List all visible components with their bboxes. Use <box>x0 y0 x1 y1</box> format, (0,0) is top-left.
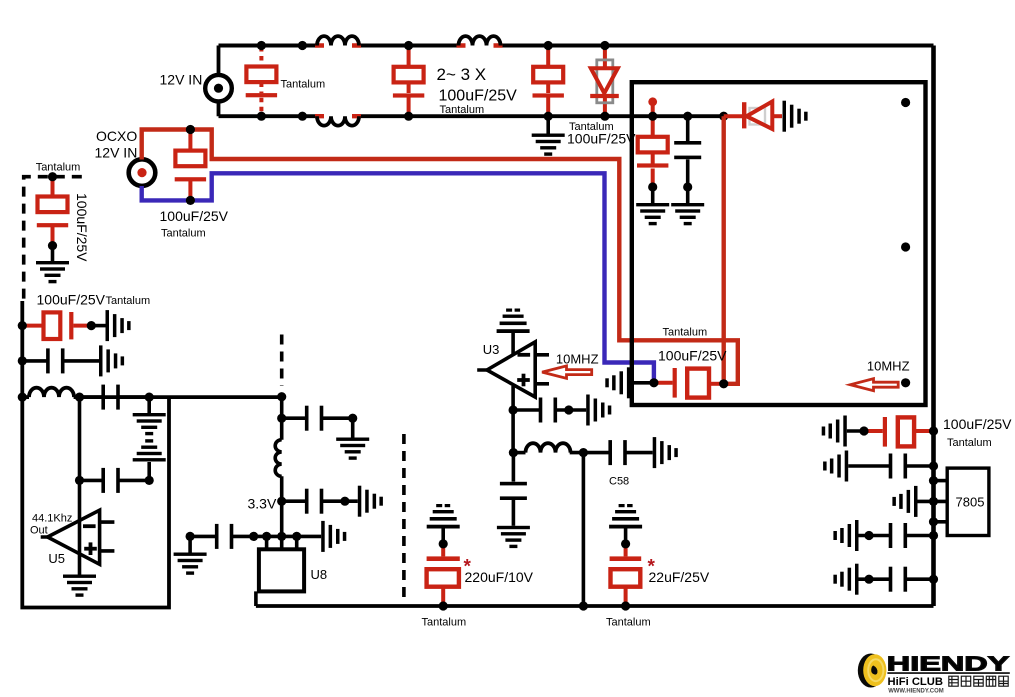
junction dots lower rail <box>257 112 610 121</box>
label 100uF/25V Tantalum C4 <box>160 208 229 240</box>
svg-text:U3: U3 <box>483 342 500 357</box>
svg-text:2~ 3 X: 2~ 3 X <box>437 65 487 84</box>
capacitor C5 tantalum <box>37 177 68 246</box>
label 100uF/25V Tantalum right <box>943 416 1012 449</box>
capacitor C23 black row with ground <box>833 564 938 595</box>
capacitor C16 22uF/25V tantalum with top ground <box>609 504 642 611</box>
box outline <box>632 82 926 405</box>
wire blue OCXO return bus <box>142 173 654 382</box>
svg-text:HIENDY: HIENDY <box>887 653 1010 676</box>
svg-text:Tantalum: Tantalum <box>422 617 467 629</box>
svg-text:12V IN: 12V IN <box>160 72 203 88</box>
junction dots in box top row <box>648 112 728 192</box>
capacitor C13 to side ground <box>513 395 611 426</box>
logo speaker ellipse <box>858 654 884 688</box>
wire top rail with right-side drop to bottom rail <box>219 46 934 607</box>
capacitor C7 black horizontal <box>22 345 124 376</box>
label Tantalum 100uF/25V near D1 <box>567 121 636 147</box>
svg-text:Tantalum: Tantalum <box>663 327 708 339</box>
pin dots right side of box <box>901 98 910 388</box>
capacitor C15 220uF/10V tantalum with top ground <box>427 504 460 611</box>
svg-text:220uF/10V: 220uF/10V <box>465 569 534 585</box>
junction dot row C7 <box>18 356 27 365</box>
svg-text:100uF/25V: 100uF/25V <box>943 416 1012 432</box>
capacitor C1 tantalum 100uF/25V dotted leads <box>246 47 277 115</box>
wire box bottom-left ground entry <box>605 367 654 398</box>
logo CJK characters <box>949 676 1008 686</box>
svg-text:Tantalum: Tantalum <box>36 162 81 174</box>
labels Tantalum 100uF/25V in box <box>658 327 727 364</box>
label Tantalum C5 <box>36 162 81 174</box>
wire left vertical rail and left box <box>22 301 281 608</box>
arrow 10MHZ in box red <box>850 379 898 391</box>
svg-text:Out: Out <box>30 525 48 537</box>
svg-text:100uF/25V: 100uF/25V <box>37 292 106 308</box>
regulator 7805 box <box>947 468 989 535</box>
inductor L1 <box>315 36 361 45</box>
inductor L3 (return rail) <box>315 116 361 125</box>
labels 44.1Khz Out U5 <box>30 513 72 567</box>
svg-text:Tantalum: Tantalum <box>161 228 206 240</box>
capacitor C20 tantalum horizontal right <box>822 416 938 447</box>
label U3 <box>483 342 500 357</box>
junction dots box bottom <box>649 378 728 388</box>
capacitor C6 tantalum horizontal <box>22 312 91 339</box>
connector J2 OCXO supply circle <box>129 159 156 186</box>
label U8 <box>311 567 328 582</box>
svg-text:Tantalum: Tantalum <box>440 104 485 116</box>
inductor L2 <box>457 36 503 45</box>
wire U3 output column <box>511 386 515 482</box>
svg-text:Tantalum: Tantalum <box>106 295 151 307</box>
dashed boundary mid-bottom <box>402 434 406 602</box>
connector J1 12V IN stubs <box>217 46 221 117</box>
capacitor C4 tantalum at OCXO input <box>175 131 206 199</box>
svg-text:WWW.HIENDY.COM: WWW.HIENDY.COM <box>888 687 944 694</box>
double ground stack node A <box>133 397 166 480</box>
op-amp U5 triangle <box>41 510 115 564</box>
svg-text:3.3V: 3.3V <box>248 496 277 512</box>
svg-text:7805: 7805 <box>956 495 985 510</box>
svg-text:U8: U8 <box>311 567 328 582</box>
capacitor C19 tantalum horizontal in box <box>654 368 724 398</box>
capacitor C14 vertical to ground <box>497 482 530 548</box>
capacitor C2 tantalum <box>393 46 424 117</box>
ground under C5 <box>36 246 69 284</box>
capacitor C22 black row with ground <box>833 520 938 551</box>
op-amp U5 ground feed line <box>63 480 96 596</box>
inductor L5 vertical <box>275 440 282 477</box>
junction dots U8 row <box>186 532 302 541</box>
svg-text:Tantalum: Tantalum <box>947 437 992 449</box>
svg-text:100uF/25V: 100uF/25V <box>658 348 727 364</box>
label 12V IN <box>160 72 203 88</box>
capacitor C10 with ground left of U8 <box>174 521 347 575</box>
capacitor C58 <box>608 437 677 468</box>
label 10MHZ in box <box>867 359 910 374</box>
label 100uF/25V vertical <box>74 193 90 262</box>
svg-text:100uF/25V: 100uF/25V <box>74 193 90 262</box>
wire and ground right of C6 <box>91 310 130 341</box>
svg-text:OCXO: OCXO <box>96 128 137 144</box>
capacitor C9 black horizontal row2 <box>80 397 150 493</box>
dashed boundary line <box>24 177 82 301</box>
junction dots 3.3V column <box>277 392 357 506</box>
inductor L6 <box>513 443 570 452</box>
junction dots C5 <box>48 172 57 250</box>
test point red dot <box>648 97 657 116</box>
junction dots OCXO <box>186 125 195 205</box>
capacitor C12 to side ground at 3.3V node <box>282 486 383 517</box>
op-amp U3 triangle <box>477 342 549 397</box>
capacitor C18 black in box <box>671 116 704 225</box>
junction dots U3 column <box>508 405 588 457</box>
svg-text:Tantalum: Tantalum <box>281 79 326 91</box>
inductor L4 <box>29 388 74 397</box>
svg-text:HiFi CLUB: HiFi CLUB <box>888 676 944 688</box>
arrow 10MHZ mid red <box>542 366 592 378</box>
dashed stub above 3.3V column <box>280 335 284 387</box>
wire stub 7805 output <box>929 517 947 526</box>
label C58 <box>609 476 629 488</box>
label * 220uF/10V Tantalum <box>422 557 534 629</box>
ground at 7805 middle pin <box>892 486 947 517</box>
ground under C3 <box>532 116 565 156</box>
svg-text:10MHZ: 10MHZ <box>556 352 599 367</box>
capacitor C8 black horizontal <box>80 385 150 410</box>
junction dots row C6 <box>18 321 96 330</box>
svg-text:22uF/25V: 22uF/25V <box>649 569 710 585</box>
label Tantalum C1 <box>281 79 326 91</box>
svg-text:100uF/25V: 100uF/25V <box>439 88 518 105</box>
wire bottom rail <box>256 604 934 608</box>
label 100uF/25V Tantalum row <box>37 292 151 308</box>
wire red feed down right side of box <box>722 116 726 384</box>
HIENDY LOGO <box>858 653 1010 695</box>
wire L6 to C58 row <box>570 453 653 606</box>
svg-text:44.1Khz: 44.1Khz <box>32 513 72 525</box>
wire red OCXO positive bus <box>142 130 738 384</box>
junction dots row L4/C8 <box>18 393 154 402</box>
capacitor C17 tantalum in box <box>636 116 669 225</box>
connector J1 12V IN barrel jack circle <box>205 75 232 102</box>
label OCXO 12V IN <box>95 128 138 161</box>
label 3.3V <box>248 496 277 512</box>
junction dots row2 <box>75 476 154 485</box>
wire 3.3V column <box>280 397 284 537</box>
svg-text:12V IN: 12V IN <box>95 145 138 161</box>
svg-text:100uF/25V: 100uF/25V <box>567 131 636 147</box>
diode D1 red with gray body <box>590 46 619 117</box>
capacitor C21 black row to rail <box>823 451 938 482</box>
label * 22uF/25V Tantalum <box>606 557 710 629</box>
svg-text:100uF/25V: 100uF/25V <box>160 208 229 224</box>
wire lower distribution rail of input filter <box>219 114 724 118</box>
capacitor C3 tantalum <box>533 46 564 117</box>
svg-text:U5: U5 <box>48 551 65 566</box>
capacitor C11 to ground <box>282 406 370 460</box>
svg-text:Tantalum: Tantalum <box>606 617 651 629</box>
wire stub into 7805 input <box>929 476 947 485</box>
diode D2 red horizontal <box>724 101 808 132</box>
svg-text:10MHZ: 10MHZ <box>867 359 910 374</box>
junction dot rail mid <box>579 601 588 610</box>
label 10MHZ mid <box>556 352 599 367</box>
label 2~ 3 X 100uF/25V Tantalum <box>437 65 518 116</box>
IC U8 box with pin stubs <box>256 536 304 606</box>
junction dots top rail <box>257 41 610 50</box>
ground above U3 <box>497 309 530 355</box>
svg-text:C58: C58 <box>609 476 629 488</box>
